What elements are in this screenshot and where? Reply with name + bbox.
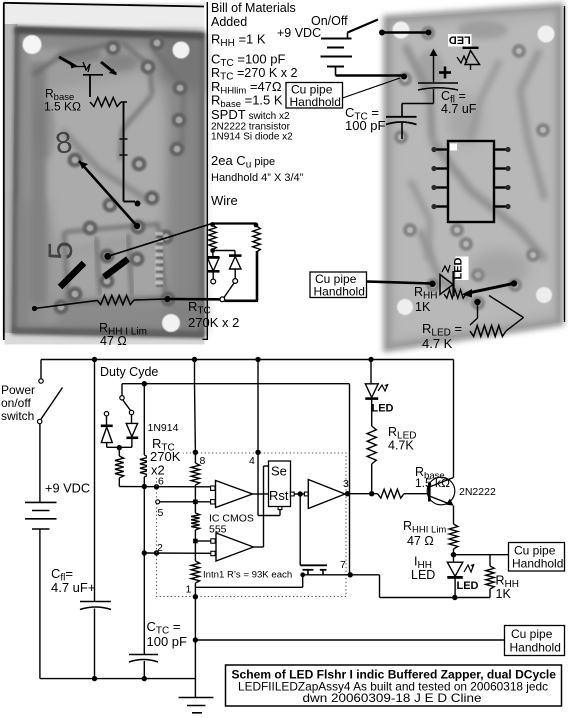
LED reversed label top — [448, 34, 472, 47]
svg-text:LED: LED — [449, 34, 471, 46]
thick hand strokes — [60, 263, 84, 287]
svg-text:Se: Se — [271, 464, 287, 479]
svg-text:1K: 1K — [496, 587, 512, 601]
svg-text:47 Ω: 47 Ω — [100, 334, 127, 348]
title box — [226, 665, 562, 706]
svg-text:LED: LED — [411, 568, 435, 582]
pin 4 line — [257, 360, 259, 453]
BOM separator wire — [206, 2, 208, 340]
source to gnd chain — [302, 575, 304, 588]
thick arrow to pad — [466, 284, 513, 294]
svg-text:Duty Cyde: Duty Cyde — [100, 365, 158, 379]
svg-text:Cu pipe: Cu pipe — [514, 544, 556, 558]
svg-text:switch: switch — [1, 409, 34, 423]
Cfl cap symbol — [418, 82, 458, 84]
bottom rail — [40, 678, 196, 680]
svg-text:+9 VDC: +9 VDC — [277, 26, 321, 40]
transistor annotation on left photo — [59, 57, 117, 97]
svg-text:2N2222: 2N2222 — [459, 486, 496, 498]
diode D2 1N914 (down) — [131, 415, 133, 423]
svg-text:5: 5 — [42, 241, 80, 260]
svg-text:RHH =1 K: RHH =1 K — [211, 32, 266, 50]
svg-text:100 pF: 100 pF — [147, 634, 188, 649]
pin6 node row — [119, 486, 213, 488]
MOSFET discharge — [299, 494, 301, 565]
RTC duty network fragment — [212, 222, 257, 224]
fragment switch — [224, 283, 234, 298]
comparator 2 — [195, 540, 211, 542]
inverter — [308, 480, 345, 509]
svg-text:Power: Power — [1, 383, 35, 397]
pin5 row — [156, 500, 160, 504]
Cu pipe box right mid — [509, 543, 565, 572]
svg-text:4.7 uF: 4.7 uF — [441, 102, 477, 116]
flip-flop box Se/Rst — [269, 461, 291, 507]
fragment diode 2 (up) — [229, 254, 242, 257]
FF output to inverter — [290, 492, 294, 496]
comparator 1 — [211, 486, 215, 490]
svg-text:1N914: 1N914 — [148, 422, 179, 434]
svg-text:4: 4 — [249, 455, 255, 467]
resistor RHHILim — [453, 506, 455, 524]
svg-text:Rst: Rst — [269, 488, 289, 503]
svg-text:270K x 2: 270K x 2 — [188, 315, 239, 330]
svg-text:Intn1 R’s = 93K each: Intn1 R’s = 93K each — [203, 570, 292, 581]
svg-text:2: 2 — [157, 542, 163, 554]
svg-text:1: 1 — [186, 584, 192, 596]
resistor RLED — [367, 426, 376, 464]
resistor RTC left — [115, 456, 124, 478]
svg-text:1N914 Si diode x2: 1N914 Si diode x2 — [211, 132, 293, 143]
svg-text:Cu pipe: Cu pipe — [511, 627, 553, 641]
resistor RHHILim annotation — [35, 301, 98, 309]
capacitor Cfl — [94, 360, 96, 602]
svg-text:4.7 uF+: 4.7 uF+ — [51, 580, 95, 595]
svg-text:Handhold: Handhold — [314, 285, 365, 299]
Cu pipe Handhold box 1 — [286, 83, 343, 109]
Cfl wire + arrow — [433, 53, 435, 82]
svg-text:LED: LED — [457, 580, 479, 592]
top +V rail — [41, 359, 454, 361]
left PCB photo (copper side) — [4, 3, 205, 345]
ground — [194, 640, 196, 697]
SPDT switch 2 (duty select) — [121, 384, 123, 396]
svg-text:4.7K: 4.7K — [388, 439, 414, 453]
svg-text:47 Ω: 47 Ω — [407, 534, 434, 548]
power on/off switch — [40, 360, 42, 379]
fragment bottom wiring — [225, 299, 259, 302]
Cu pipe box lower — [505, 626, 565, 656]
pin 8 / internal chain — [194, 360, 196, 384]
node: rail junctions — [92, 357, 97, 362]
svg-text:x2: x2 — [151, 463, 165, 478]
fragment diode 1 (down) — [207, 256, 220, 259]
svg-text:5: 5 — [158, 507, 164, 519]
IHH LED symbol on photo — [456, 257, 469, 281]
long arrow annotations on left photo — [79, 161, 137, 226]
CTC / gnd row to lower handhold — [193, 637, 198, 642]
IC U1 8-pin outline on photo — [431, 141, 510, 222]
svg-text:Handhold: Handhold — [512, 557, 563, 571]
LED symbol top right — [463, 47, 479, 49]
svg-text:Bill of Materials: Bill of Materials — [211, 1, 296, 15]
resistor Rbase — [378, 489, 405, 498]
svg-text:1K: 1K — [415, 300, 431, 314]
svg-text:3: 3 — [343, 478, 349, 490]
CTC branch down — [143, 553, 145, 654]
dashed 555 boundary box — [157, 453, 347, 597]
svg-text:2ea Cu pipe: 2ea Cu pipe — [211, 153, 275, 171]
svg-text:Wire: Wire — [211, 193, 238, 208]
resistor RHH — [454, 554, 491, 556]
svg-text:7: 7 — [340, 559, 346, 571]
resistor RTC right — [143, 384, 145, 455]
svg-text:LED: LED — [372, 403, 394, 415]
svg-text:dwn 20060309-18 J E D Cline: dwn 20060309-18 J E D Cline — [303, 691, 482, 705]
battery +9 VDC — [39, 424, 41, 502]
wire pointer to RTC fragment — [108, 224, 212, 257]
svg-text:Handhold: Handhold — [290, 95, 341, 109]
pin3 row — [345, 493, 378, 495]
svg-text:Handhold 4” X 3/4”: Handhold 4” X 3/4” — [211, 172, 304, 184]
LED top — [370, 360, 372, 384]
D1/D2 junction — [107, 446, 132, 448]
svg-text:4.7 K: 4.7 K — [422, 336, 453, 351]
diode D1 1N914 (up) — [106, 416, 108, 425]
RLED pointer — [474, 299, 480, 305]
svg-text:on/off: on/off — [1, 396, 31, 410]
svg-text:1.5 KΩ: 1.5 KΩ — [44, 100, 81, 114]
svg-text:+9 VDC: +9 VDC — [45, 481, 90, 496]
right PCB photo (component side xray) — [387, 7, 560, 348]
svg-text:100 pF: 100 pF — [345, 118, 386, 133]
pin 7 path — [323, 574, 380, 576]
pin2 node row — [143, 487, 145, 554]
svg-text:Added: Added — [211, 15, 247, 29]
plus sign — [439, 71, 451, 74]
CTC cap symbol — [401, 104, 403, 117]
transistor Q1 2N2222 — [428, 483, 431, 502]
Cu pipe Handhold box 2 — [310, 272, 367, 298]
svg-text:Handhold: Handhold — [510, 641, 561, 655]
